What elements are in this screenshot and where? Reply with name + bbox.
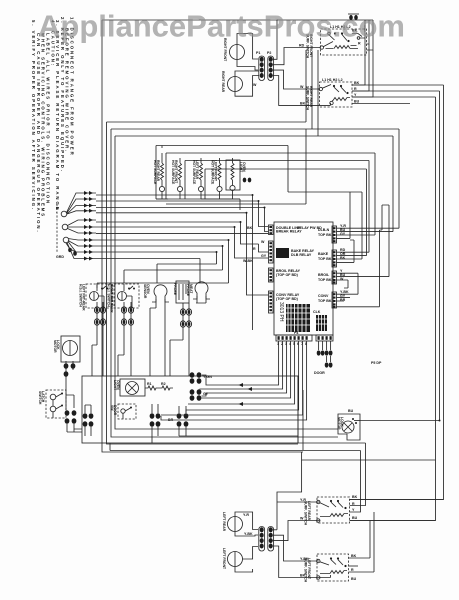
label lamp 5 xyxy=(239,162,246,173)
label latch switch xyxy=(38,391,45,405)
svg-text:Y-BK: Y-BK xyxy=(244,532,253,536)
infinite switch LEFT REAR (dashed box) xyxy=(317,497,350,523)
svg-text:HOT SURFACE: HOT SURFACE xyxy=(210,160,214,185)
svg-text:R: R xyxy=(351,568,354,572)
wire bus B y199 xyxy=(96,201,268,227)
latch connector cluster xyxy=(65,382,82,432)
broil element pins xyxy=(190,389,209,401)
svg-text:BK: BK xyxy=(340,256,346,260)
infinite switch RIGHT REAR (dashed box) xyxy=(319,78,352,107)
oven light resistors xyxy=(145,382,173,390)
terminal L2 xyxy=(63,237,69,243)
board barcode block large xyxy=(286,304,310,332)
svg-text:RIGHT REAR: RIGHT REAR xyxy=(221,71,225,93)
label oven sensor xyxy=(143,284,150,299)
wire LR-LF link verticals xyxy=(349,512,375,572)
wire board bottom fanout 2 xyxy=(202,341,291,398)
svg-text:GRD: GRD xyxy=(56,255,64,259)
meat probe receptacle box xyxy=(176,281,189,303)
svg-text:GY: GY xyxy=(261,254,267,258)
board left connector pins group 4 xyxy=(269,291,274,313)
svg-text:5. VERIFY PROPER OPERATION AFT: 5. VERIFY PROPER OPERATION AFTER SERVICI… xyxy=(31,20,36,211)
wire LR switch outputs xyxy=(350,500,444,521)
board left connector pins group 3 xyxy=(269,268,274,282)
wire connector to switch RF (RD) xyxy=(273,48,320,65)
connector block top (two 4-pin strips) xyxy=(256,51,274,81)
hot surface indicator switch A (dashed) xyxy=(86,284,112,308)
wire bus F y227 xyxy=(96,227,268,258)
svg-text:BK: BK xyxy=(351,554,357,558)
wire mid bus y122 xyxy=(107,50,307,122)
wire top supply bus L1 xyxy=(102,19,373,21)
wire connector pin4 up xyxy=(273,521,320,541)
svg-text:R: R xyxy=(253,247,256,251)
svg-text:AppliancePartsPros.com: AppliancePartsPros.com xyxy=(38,9,405,44)
infinite switch RIGHT FRONT (dashed box) xyxy=(320,25,366,55)
svg-text:HOT SURFACE: HOT SURFACE xyxy=(171,160,175,185)
svg-text:BROIL: BROIL xyxy=(318,273,330,277)
svg-text:PROBE: PROBE xyxy=(173,283,177,296)
terminal block dashed outline xyxy=(56,204,58,252)
label switch B xyxy=(106,284,113,313)
board strip2 terminal stubs xyxy=(314,341,333,375)
svg-text:TOP BK: TOP BK xyxy=(318,299,332,303)
convection pins cluster xyxy=(168,406,298,436)
ground lug xyxy=(56,243,77,259)
svg-text:W-BK: W-BK xyxy=(243,259,253,263)
board bottom connector strip 1 xyxy=(276,335,312,341)
svg-text:L1 H1 H2 L2: L1 H1 H2 L2 xyxy=(322,78,343,82)
label LEFT REAR xyxy=(222,512,226,532)
wire connector to switch RR bottom (BK) xyxy=(273,76,331,106)
svg-text:TOP BK: TOP BK xyxy=(318,278,332,282)
wire board right g3 xyxy=(337,205,390,294)
svg-text:BR: BR xyxy=(340,298,346,302)
connector arrows on fanout wires xyxy=(239,383,253,406)
svg-text:HOT SURFACE: HOT SURFACE xyxy=(153,160,157,185)
wire fan from terminal L2 xyxy=(67,238,96,261)
svg-text:(TOP OF BD): (TOP OF BD) xyxy=(276,273,299,277)
surface unit LEFT FRONT xyxy=(228,547,259,573)
svg-text:MOTOR: MOTOR xyxy=(337,417,341,430)
right pins cluster in oven box xyxy=(150,404,161,443)
svg-text:LEFT REAR: LEFT REAR xyxy=(222,512,226,532)
svg-text:SENSOR: SENSOR xyxy=(143,284,147,299)
svg-text:Y-R: Y-R xyxy=(243,513,249,517)
svg-text:R: R xyxy=(354,87,357,91)
board left connector pins group 2 xyxy=(269,241,274,263)
wire connector to top bus xyxy=(273,20,277,59)
svg-text:H.S.I. SWITCH: H.S.I. SWITCH xyxy=(106,284,110,307)
connector plug on top bus xyxy=(348,14,359,20)
board bottom connector strip 2 xyxy=(294,331,333,341)
wire verticals join switch RR xyxy=(352,38,373,97)
svg-text:R: R xyxy=(352,502,355,506)
wire sensor leads down xyxy=(150,302,165,376)
wire far right vertical feed A xyxy=(350,85,444,500)
svg-text:BREAK RELAY: BREAK RELAY xyxy=(276,230,302,234)
svg-text:DLB RELAY: DLB RELAY xyxy=(291,253,312,257)
terminal N xyxy=(62,224,68,230)
svg-text:LIGHT: LIGHT xyxy=(239,162,243,173)
board internal relay text rows xyxy=(276,226,322,301)
svg-text:BK: BK xyxy=(352,495,358,499)
indicator lamp 5 (oven on) xyxy=(226,158,240,199)
hot surface indicator switch B (dashed) xyxy=(114,284,139,308)
wire fan from terminal L1 xyxy=(67,191,97,214)
surface unit RIGHT FRONT xyxy=(230,34,259,71)
board left connector pins group 1 xyxy=(269,225,274,235)
label switch A xyxy=(78,284,85,311)
svg-text:R1: R1 xyxy=(147,382,152,386)
wire left vertical to lock motor xyxy=(115,136,338,429)
label lamp 4 xyxy=(210,160,217,185)
oven box left pin cluster xyxy=(83,405,94,436)
svg-text:PROBE: PROBE xyxy=(186,284,190,297)
svg-text:SURF. SWITCH: SURF. SWITCH xyxy=(304,501,308,526)
svg-text:BK: BK xyxy=(354,81,360,85)
svg-text:W: W xyxy=(253,83,257,87)
board right connector pins group 4 xyxy=(318,292,337,308)
label RIGHT FRONT xyxy=(223,38,227,62)
wire connector to switch LF bottom xyxy=(273,546,331,578)
wire board bottom fanout 1 xyxy=(200,341,283,389)
wire far right vertical feed B xyxy=(350,97,436,521)
label right rear switch xyxy=(306,86,313,111)
svg-text:W: W xyxy=(261,240,265,244)
wire pins B down xyxy=(118,332,131,376)
wire fan from terminal N xyxy=(68,218,97,235)
svg-text:BK: BK xyxy=(247,226,253,230)
label left rear switch xyxy=(304,501,311,526)
label meat probe omega xyxy=(186,284,193,297)
svg-text:SURF. SWITCH: SURF. SWITCH xyxy=(304,558,308,583)
svg-text:SW.: SW. xyxy=(110,405,114,411)
junction dots on bus xyxy=(216,194,266,253)
svg-text:HOT SURFACE: HOT SURFACE xyxy=(192,160,196,185)
svg-text:P5 DP: P5 DP xyxy=(371,361,382,365)
svg-text:Y-GN: Y-GN xyxy=(203,375,212,379)
oven sensor (omega) xyxy=(152,285,169,302)
svg-text:3013 PH: 3013 PH xyxy=(278,302,284,322)
svg-text:CLK: CLK xyxy=(313,310,321,314)
wire bus A y193 xyxy=(96,195,253,330)
svg-text:P2: P2 xyxy=(267,51,271,55)
wire lamp nest rail 2 xyxy=(166,153,375,199)
indicator lamp 2 xyxy=(177,158,182,199)
svg-text:BK: BK xyxy=(300,101,306,105)
wire RR switch outputs to far right verticals xyxy=(352,85,444,104)
wire left vertical L2 xyxy=(111,129,338,437)
svg-text:BU: BU xyxy=(354,100,360,104)
lock motor pins xyxy=(64,361,76,382)
connector pins below probe xyxy=(180,303,191,330)
label lock motor right xyxy=(337,417,344,430)
surface unit RIGHT REAR xyxy=(228,71,259,96)
wire left vertical N xyxy=(107,122,299,444)
wire bus I y246 xyxy=(96,246,223,283)
wire label column right of board xyxy=(340,224,349,302)
wire probe leads down xyxy=(170,299,206,376)
svg-text:DLB-N: DLB-N xyxy=(318,228,330,232)
meat probe (omega) xyxy=(193,282,210,299)
wire bus D y210.8 xyxy=(96,213,268,295)
terminal L1 xyxy=(61,211,67,217)
wire lamp row bottom rails xyxy=(156,129,306,210)
wire connector to switch LR top xyxy=(273,529,277,531)
wire far right vertical to lock motor xyxy=(360,91,440,421)
label door switch xyxy=(110,405,117,416)
indicator lamp 4 xyxy=(217,158,222,199)
wire LF switch outputs xyxy=(349,565,359,567)
svg-text:SURF. SWITCH: SURF. SWITCH xyxy=(306,86,310,111)
wire bus H y240 xyxy=(96,240,229,288)
wire bus G y233 xyxy=(96,232,268,234)
svg-text:TOP BK: TOP BK xyxy=(318,233,332,237)
wire bus J y252 xyxy=(96,252,217,283)
wire lamp nest rail 1 xyxy=(156,146,362,200)
svg-text:LIGHT: LIGHT xyxy=(113,380,117,391)
svg-text:W: W xyxy=(300,517,304,521)
infinite switch LEFT FRONT (dashed box) xyxy=(317,554,349,581)
oven light xyxy=(120,379,145,396)
wire connector to switch RR top (W) xyxy=(273,70,319,89)
wire board bottom fanout 4 xyxy=(161,341,307,420)
wire connector to switch LF top xyxy=(273,535,319,561)
label meat probe xyxy=(173,283,177,296)
door latch switch box (dashed) xyxy=(46,390,66,418)
svg-text:MOTOR: MOTOR xyxy=(53,340,57,353)
oven door switch (dashed) xyxy=(118,404,136,419)
label lamp 1 xyxy=(153,160,160,185)
connector block bottom (two 4-pin strips) xyxy=(259,527,274,552)
wire board right g4 xyxy=(337,230,383,307)
wire bus E y220 xyxy=(96,222,268,252)
wire RF switch outputs to right verticals xyxy=(360,20,373,50)
svg-text:P1: P1 xyxy=(256,51,260,55)
wire oven rail down to bottom connector xyxy=(277,460,320,530)
connector pin column below switch A xyxy=(94,302,105,332)
board part number 3013 PH xyxy=(278,302,284,322)
svg-text:LEFT FRONT: LEFT FRONT xyxy=(222,548,226,570)
svg-text:R2: R2 xyxy=(161,382,166,386)
oven box outline xyxy=(82,376,298,443)
svg-text:(TOP OF BD): (TOP OF BD) xyxy=(276,297,299,301)
svg-text:SWITCH: SWITCH xyxy=(38,391,42,405)
indicator lamp 3 xyxy=(198,158,240,199)
board barcode block small xyxy=(313,310,327,331)
wire board bottom fanout 3 xyxy=(186,341,299,413)
control board outline xyxy=(274,222,333,335)
label right front switch xyxy=(306,34,313,59)
wire left border vertical L1 xyxy=(102,20,303,452)
wire mid bus y137 xyxy=(115,50,393,136)
svg-text:BU: BU xyxy=(352,516,358,520)
svg-text:TOP BK: TOP BK xyxy=(318,257,332,261)
svg-text:CONV: CONV xyxy=(318,294,329,298)
svg-text:H.S.I. SWITCH: H.S.I. SWITCH xyxy=(78,284,82,307)
board right connector pins group 1 xyxy=(318,226,337,243)
label left front switch xyxy=(304,558,311,583)
label lock motor xyxy=(53,340,60,353)
wire mid bus y129 xyxy=(111,52,399,129)
svg-text:P4: P4 xyxy=(294,331,298,335)
board right connector pins group 3 xyxy=(318,271,337,284)
label oven light xyxy=(113,380,120,391)
wire lamp nest rail 4 xyxy=(205,169,367,199)
svg-text:RD: RD xyxy=(299,44,305,48)
board right connector pins group 2 xyxy=(318,250,337,267)
svg-text:W: W xyxy=(340,277,344,281)
wire oven rail link to far right vertical xyxy=(302,452,436,460)
notes text block (rotated) xyxy=(31,17,74,234)
wire bus K y258.5 xyxy=(96,259,200,284)
board bottom pin labels xyxy=(277,342,307,346)
label LEFT FRONT xyxy=(222,548,226,570)
wire lamp nest rail 3 xyxy=(185,161,369,200)
svg-text:GY: GY xyxy=(340,232,346,236)
indicator lamp 1 xyxy=(156,146,168,200)
svg-text:DOOR: DOOR xyxy=(314,371,325,375)
wire bus C y205.5 xyxy=(96,208,268,232)
wire pins A down to oven box xyxy=(92,332,103,376)
connector pin column below switch B xyxy=(121,302,133,332)
svg-text:BU: BU xyxy=(351,577,357,581)
lamp 5 connector pins xyxy=(243,178,252,183)
surface unit LEFT REAR xyxy=(228,512,259,536)
svg-text:BAKE: BAKE xyxy=(318,252,329,256)
label RIGHT REAR xyxy=(221,71,225,93)
wire board right g1 to rails xyxy=(337,129,400,238)
wire board right g2 to right verticals xyxy=(337,161,370,263)
label lamp 3 xyxy=(192,160,199,185)
wire oven bottom rail 2 xyxy=(110,443,366,512)
label lamp 2 xyxy=(171,160,178,185)
bake element pins xyxy=(190,372,213,384)
svg-text:BU: BU xyxy=(348,409,354,413)
svg-text:W: W xyxy=(300,85,304,89)
oven box right edge verticals xyxy=(298,376,303,450)
